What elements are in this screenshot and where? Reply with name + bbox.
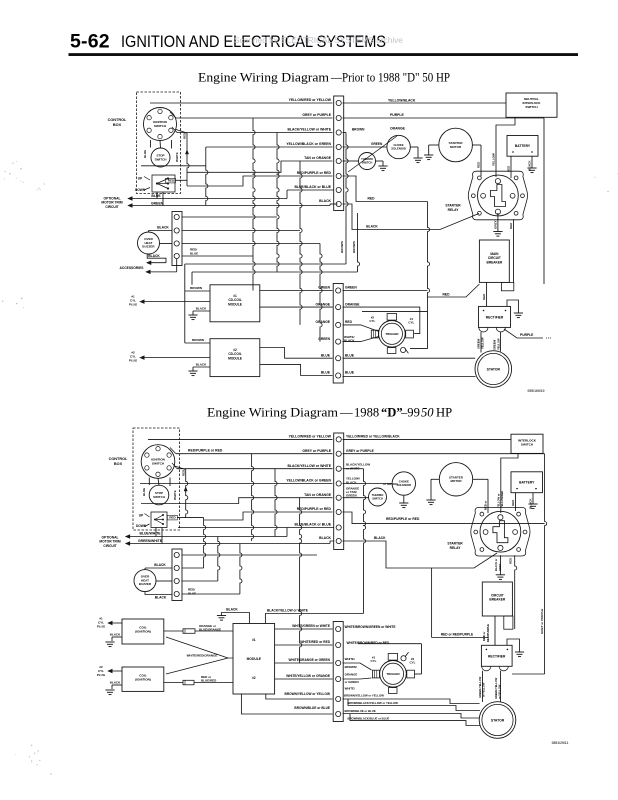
svg-text:CYL: CYL [98,621,104,625]
svg-text:BLUE: BLUE [142,488,146,496]
svg-text:RED/PURPLE or RED: RED/PURPLE or RED [297,507,332,511]
svg-text:GREEN-YELLOW: GREEN-YELLOW [494,677,498,699]
svg-text:Engine Wiring Diagram: Engine Wiring Diagram [207,406,338,420]
svg-text:YELLOW/RED: YELLOW/RED [500,491,504,508]
svg-text:BLUE: BLUE [151,194,161,198]
svg-text:WHITE/GREEN or WHITE: WHITE/GREEN or WHITE [292,624,330,628]
svg-text:BROWN/BLACK/BLUE or BLUE: BROWN/BLACK/BLUE or BLUE [348,716,390,720]
svg-text:GREEN: GREEN [318,337,330,341]
svg-text:BLUE: BLUE [188,591,196,595]
svg-text:MODULE: MODULE [228,302,242,306]
svg-text:IGNITION: IGNITION [151,458,166,462]
svg-text:CYL: CYL [98,669,104,673]
svg-text:SWITCH: SWITCH [155,158,167,162]
svg-text:RECTIFIER: RECTIFIER [486,316,504,320]
svg-text:#1: #1 [252,638,256,642]
svg-text:CIRCUIT: CIRCUIT [103,544,116,548]
svg-text:YELLOW: YELLOW [492,153,496,166]
svg-text:MOTOR: MOTOR [450,479,462,483]
svg-text:OPTIONAL: OPTIONAL [101,536,118,540]
svg-text:50: 50 [421,406,434,420]
svg-text:RED/PURPLE or RED: RED/PURPLE or RED [386,517,420,521]
svg-text:OPTIONAL: OPTIONAL [103,197,120,201]
svg-text:YELLOW/RED or YELLOW/BLACK: YELLOW/RED or YELLOW/BLACK [346,435,400,439]
svg-text:—Prior to 1988 "D" 50 HP: —Prior to 1988 "D" 50 HP [330,71,450,85]
svg-text:#1: #1 [233,294,237,298]
svg-text:or GREEN: or GREEN [345,680,359,684]
svg-text:PLUG: PLUG [97,673,106,677]
svg-text:(IGNITION): (IGNITION) [135,630,151,634]
svg-text:STOP: STOP [156,154,164,158]
svg-text:BLACK: BLACK [529,498,533,509]
svg-text:BLACK: BLACK [528,160,532,171]
svg-text:RELAY: RELAY [450,546,462,550]
svg-text:WHITE/: WHITE/ [345,657,355,661]
svg-text:RED: RED [169,516,176,520]
svg-text:BUZZER: BUZZER [139,582,152,586]
svg-text:SWITCH: SWITCH [152,462,165,466]
svg-text:NEUTRAL: NEUTRAL [524,97,539,101]
svg-text:CIRCUIT: CIRCUIT [105,205,118,209]
svg-text:GREEN: GREEN [346,494,357,498]
svg-text:#2: #2 [99,665,103,669]
svg-text:RED/PURPLE: RED/PURPLE [486,624,490,642]
svg-text:BLACK: BLACK [366,225,378,229]
svg-text:BROWN: BROWN [352,128,365,132]
svg-text:UP: UP [138,177,143,181]
svg-text:RED: RED [509,222,513,229]
svg-text:INTERLOCK: INTERLOCK [522,101,541,105]
svg-text:MOTOR TRIM: MOTOR TRIM [99,540,120,544]
svg-text:MODULE: MODULE [247,657,262,661]
svg-text:Engine Wiring Diagram: Engine Wiring Diagram [198,71,329,85]
svg-text:GREEN-YELLOW: GREEN-YELLOW [478,676,482,698]
svg-text:WHITE: WHITE [173,490,177,500]
svg-text:RED: RED [181,470,185,476]
svg-text:YELLOW/RED or YELLOW: YELLOW/RED or YELLOW [289,435,332,439]
svg-text:BLACK: BLACK [154,563,166,567]
svg-text:BATTERY: BATTERY [519,481,535,485]
svg-text:STARTER: STARTER [449,141,464,145]
svg-text:CONTROL: CONTROL [108,118,127,122]
svg-text:GREY or PURPLE: GREY or PURPLE [346,449,375,453]
svg-text:YELLOW/RED or YELLOW: YELLOW/RED or YELLOW [289,98,332,102]
svg-text:BLACK: BLACK [196,306,207,310]
svg-text:#2: #2 [233,348,237,352]
svg-text:RED/PURPLE or RED: RED/PURPLE or RED [188,448,223,452]
svg-text:TRIGGER: TRIGGER [385,332,399,336]
svg-text:BROWN/BLUE or BLUE: BROWN/BLUE or BLUE [294,706,330,710]
svg-text:or YELLOW: or YELLOW [482,682,486,697]
svg-text:BROWN/YELLOW or YELLOW: BROWN/YELLOW or YELLOW [285,692,330,696]
svg-text:MODULE: MODULE [228,356,242,360]
svg-text:GREEN/: GREEN/ [476,338,480,349]
svg-text:ORANGE: ORANGE [316,302,331,306]
svg-text:ACCESSORIES: ACCESSORIES [120,266,145,270]
svg-text:#2: #2 [131,351,135,355]
svg-text:SOLENOID: SOLENOID [396,483,411,487]
svg-text:ORANGE: ORANGE [345,672,358,676]
svg-text:Scanned for ELECTRICAL SYSTEMS: Scanned for ELECTRICAL SYSTEMS archive [234,35,403,45]
svg-text:BLUE/WHITE: BLUE/WHITE [139,532,161,536]
svg-text:CYL: CYL [371,659,377,663]
svg-text:SOLENOID: SOLENOID [391,147,406,151]
svg-text:–99: –99 [400,406,420,420]
svg-text:BLACK/YELLOW or WHITE: BLACK/YELLOW or WHITE [267,608,308,612]
svg-text:HP: HP [436,406,452,420]
svg-text:RELAY: RELAY [448,208,460,212]
svg-text:BLACK: BLACK [319,199,331,203]
svg-text:BLUE/BLACK or BLUE: BLUE/BLACK or BLUE [294,523,331,527]
svg-text:RED: RED [168,179,175,183]
svg-text:CIRCUIT: CIRCUIT [491,594,504,598]
svg-text:BLUE: BLUE [345,371,355,375]
svg-text:GREEN: GREEN [371,142,383,146]
svg-text:RED: RED [482,293,486,300]
svg-text:PURPLE: PURPLE [520,333,534,337]
svg-text:CYL: CYL [130,299,136,303]
svg-text:1988: 1988 [354,406,379,420]
svg-text:MAIN: MAIN [490,252,499,256]
svg-text:“D”: “D” [381,406,403,420]
svg-text:BLACK: BLACK [319,536,331,540]
svg-text:5-62: 5-62 [70,31,110,53]
svg-text:CIRCUIT: CIRCUIT [488,256,501,260]
svg-text:BLACK/YELLOW or WHITE: BLACK/YELLOW or WHITE [287,464,331,468]
svg-text:PLUG: PLUG [97,625,106,629]
svg-text:RED: RED [368,197,376,201]
svg-text:STARTER: STARTER [447,542,463,546]
svg-text:COIL: COIL [139,626,147,630]
svg-text:BLACK: BLACK [226,608,238,612]
svg-text:WHITE: WHITE [175,152,179,162]
svg-text:WHITE/: WHITE/ [345,687,355,691]
svg-text:GREY: GREY [498,563,502,571]
svg-text:RECTIFIER: RECTIFIER [488,655,506,659]
svg-text:CD-COIL: CD-COIL [228,298,241,302]
svg-text:TRIGGER: TRIGGER [386,672,400,676]
svg-text:STARTER: STARTER [449,475,464,479]
svg-text:BROWN: BROWN [352,241,356,253]
svg-text:or YELLOW: or YELLOW [498,684,502,699]
svg-text:THERMO: THERMO [361,157,373,161]
svg-text:BREAKER: BREAKER [487,260,503,264]
svg-text:INTERLOCK: INTERLOCK [518,439,537,443]
svg-text:SWITCH: SWITCH [362,160,373,164]
svg-text:BROWN/BLUE or BLUE: BROWN/BLUE or BLUE [345,709,376,713]
svg-text:GREEN/: GREEN/ [492,339,496,350]
svg-text:CD-COIL: CD-COIL [228,352,241,356]
svg-text:GREEN: GREEN [318,286,330,290]
svg-text:IGNITION: IGNITION [153,120,168,124]
svg-text:—: — [339,406,353,420]
svg-text:#1: #1 [131,295,135,299]
svg-text:YELLOW or: YELLOW or [496,494,500,508]
svg-text:RED: RED [477,161,481,168]
svg-text:BUZZER: BUZZER [142,245,155,249]
svg-text:WHITE/YELLOW or ORANGE: WHITE/YELLOW or ORANGE [286,674,330,678]
svg-text:RED or: RED or [484,500,488,510]
svg-text:GREEN: GREEN [345,286,357,290]
svg-text:CYL: CYL [369,319,375,323]
svg-text:RED: RED [508,557,512,564]
svg-text:BLUE/ORANGE: BLUE/ORANGE [199,628,221,632]
svg-text:055/169/10: 055/169/10 [528,389,545,393]
svg-text:ORANGE: ORANGE [316,320,331,324]
svg-text:ORANGE: ORANGE [390,127,406,131]
svg-text:STATOR: STATOR [487,368,501,372]
svg-text:SWITCH: SWITCH [521,443,534,447]
svg-text:BLACK: BLACK [148,254,160,258]
svg-text:0851/29/11: 0851/29/11 [552,741,569,745]
svg-text:GREY or PURPLE: GREY or PURPLE [302,449,331,453]
svg-text:RED: RED [345,320,353,324]
svg-text:COIL: COIL [139,674,147,678]
svg-text:GREEN: GREEN [151,201,164,205]
svg-text:STARTER: STARTER [445,204,461,208]
svg-text:BROWN: BROWN [192,338,205,342]
svg-text:GREY or PURPLE: GREY or PURPLE [540,609,544,634]
svg-text:SWITCH: SWITCH [153,495,165,499]
svg-text:#2: #2 [252,676,256,680]
svg-text:WHITE/BROWN/RED or RED: WHITE/BROWN/RED or RED [347,641,391,645]
svg-text:BROWN: BROWN [190,286,203,290]
svg-text:TAN or ORANGE: TAN or ORANGE [304,156,332,160]
svg-text:BLUE: BLUE [190,251,198,255]
svg-text:STATOR: STATOR [491,719,505,723]
svg-text:MOTOR TRIM: MOTOR TRIM [101,201,122,205]
svg-text:BLUE: BLUE [321,371,331,375]
svg-text:ORANGE: ORANGE [345,302,360,306]
svg-text:GREEN/WHITE: GREEN/WHITE [138,539,163,543]
svg-text:GREY: GREY [493,220,497,229]
svg-text:UP: UP [139,513,144,517]
svg-text:CONTROL: CONTROL [109,457,128,461]
svg-text:RED: RED [511,499,515,506]
svg-text:THERMO: THERMO [372,493,384,497]
svg-text:or GREEN: or GREEN [383,482,398,486]
svg-text:BROWN: BROWN [340,241,344,253]
svg-text:YELLOW/BLACK or GREEN: YELLOW/BLACK or GREEN [286,479,331,483]
svg-text:WHITE/RED or RED: WHITE/RED or RED [300,640,330,644]
svg-text:BLACK: BLACK [196,362,207,366]
svg-text:BATTERY: BATTERY [515,144,531,148]
svg-text:BROWN/BLACK/YELLOW or YELLOW: BROWN/BLACK/YELLOW or YELLOW [348,701,399,705]
svg-text:BLACK: BLACK [374,536,386,540]
svg-text:PURPLE: PURPLE [390,113,404,117]
svg-text:BLACK or: BLACK or [494,559,498,571]
svg-text:SWITCH: SWITCH [372,496,383,500]
svg-text:SWITCH: SWITCH [525,105,538,109]
svg-text:WHITE/ORANGE or GREEN: WHITE/ORANGE or GREEN [289,658,331,662]
svg-text:WHITE/BROWN/GREEN or WHITE: WHITE/BROWN/GREEN or WHITE [345,625,396,629]
svg-text:BLUE: BLUE [321,353,331,357]
svg-text:YELLOW/BLACK: YELLOW/BLACK [388,99,416,103]
svg-text:BROWN/YELLOW or YELLOW: BROWN/YELLOW or YELLOW [344,693,384,697]
svg-text:or WHITE: or WHITE [346,466,360,470]
svg-text:BLACK: BLACK [157,225,169,229]
svg-text:BREAKER: BREAKER [489,598,505,602]
svg-text:BLUE: BLUE [143,150,147,158]
svg-text:CYL: CYL [130,355,136,359]
svg-text:CYL: CYL [408,321,414,325]
svg-text:YELLOW/BLACK or GREEN: YELLOW/BLACK or GREEN [286,142,331,146]
svg-text:RED: RED [183,133,187,139]
svg-text:#1: #1 [99,617,103,621]
svg-text:TAN or ORANGE: TAN or ORANGE [304,493,332,497]
svg-text:(IGNITION): (IGNITION) [135,678,151,682]
svg-text:BOX: BOX [114,462,123,466]
svg-text:BOX: BOX [113,123,122,127]
svg-text:BLACK: BLACK [110,680,121,684]
svg-text:MOTOR: MOTOR [450,145,462,149]
svg-text:PLUG: PLUG [129,359,138,363]
svg-text:BLUE/RED: BLUE/RED [201,679,217,683]
svg-text:STOP: STOP [155,491,163,495]
svg-text:WHITE/RED/ORANGE: WHITE/RED/ORANGE [187,654,218,658]
svg-text:YELLOW: YELLOW [497,338,501,350]
svg-text:BLACK/YELLOW or WHITE: BLACK/YELLOW or WHITE [287,128,331,132]
svg-text:GREY or PURPLE: GREY or PURPLE [302,113,331,117]
svg-text:YELLOW: YELLOW [481,337,485,349]
svg-text:BLUE: BLUE [345,353,355,357]
svg-text:SWITCH: SWITCH [154,124,167,128]
svg-text:RED or: RED or [482,631,486,641]
svg-text:RED: RED [443,292,451,296]
svg-text:CYL: CYL [410,661,416,665]
svg-text:BROWN/: BROWN/ [345,665,357,669]
svg-text:BLACK: BLACK [155,596,167,600]
svg-text:RED or RED/PURPLE: RED or RED/PURPLE [441,633,473,637]
svg-text:PLUG: PLUG [129,303,138,307]
svg-text:BLACK: BLACK [110,632,121,636]
